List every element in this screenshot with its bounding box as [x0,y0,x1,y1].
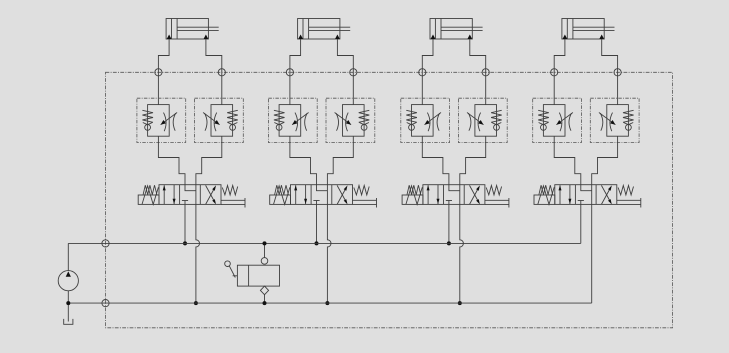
flow control valve 1b: body rectangle [211,105,233,137]
flow control valve 1a: check-valve spring [142,110,153,122]
unloading valve: body [237,265,279,286]
flow control valve 3a: check-valve ball [409,125,415,131]
flow control valve 4a: throttle arcs [559,113,571,132]
wire: valve 2 T port down to tank rail [327,204,331,303]
pump suction line [67,291,69,322]
flow control valve 3b: adjustment arrow [467,113,484,125]
flow control valve 3b: body rectangle [475,105,497,137]
directional valve 2: left return spring [275,185,289,195]
wire: flow control 1b to valve 1 port B [196,136,222,185]
wire: cylinder 1 cap-end port down to flow control 1b [206,39,222,105]
junction dot: valve 2 P on pressure rail [315,241,319,245]
unloading valve: bottom diamond port [260,286,268,295]
hydraulic pump P1 [58,243,78,290]
flow control valve 4b: dashed enclosure [590,98,639,142]
flow control valve 1a: check-valve seat [143,123,153,125]
wire: cylinder 4 rod-end port down to flow control 4a [554,39,565,105]
flow control valve 2b: check-valve ball [361,125,367,131]
directional valve 3: solenoid (left) [402,186,423,205]
directional valve 3: pilot drain lines (right) [485,198,509,208]
wire: flow control 3b to valve 3 port B [460,136,486,185]
directional valve 2: solenoid (left) [270,186,291,205]
wire: cylinder 4 cap-end port down to flow control 4b [602,39,618,105]
junction dot: valve 3 P on pressure rail [447,241,451,245]
directional valve 3: centre position passages [446,185,460,205]
flow control valve 3b: throttle arcs [468,113,480,132]
flow control valve 4a: dashed enclosure [533,98,582,142]
flow control valve 3a: check-valve seat [407,123,417,125]
wire: flow control 4b to valve 4 port B [592,136,618,185]
unloading valve: top roller circle [261,258,268,265]
tank symbol [64,319,73,324]
junction dot: valve 2 T on tank rail [325,301,329,305]
wire: valve 1 P port down to pressure rail [184,204,186,243]
directional valve 1: left return spring [143,185,157,195]
wire: valve 4 T port down to tank rail [591,204,593,303]
flow control valve 2a: adjustment arrow [292,113,309,125]
manifold port circle 4b on enclosure boundary [614,69,621,76]
flow control valve 4a: check-valve spring [538,110,549,122]
directional valve 1: pilot drain lines (right) [221,198,245,208]
directional valve 4: left return spring [539,185,553,195]
flow control valve 3b: check-valve seat [492,123,502,125]
flow control valve 4b: throttle arcs [600,113,612,132]
manifold port circle 3b on enclosure boundary [482,69,489,76]
flow control valve 3b: dashed enclosure [458,98,507,142]
wire: flow control 2b to valve 2 port B [327,136,353,185]
flow control valve 3a: check-valve spring [406,110,417,122]
flow control valve 4b: check-valve spring [623,110,634,122]
flow control valve 3b: check-valve ball [494,125,500,131]
flow control valve 2b: adjustment arrow [335,113,352,125]
flow control valve 2b: throttle arcs [336,113,348,132]
wire: cylinder 3 rod-end port down to flow control 3a [422,39,433,105]
wire: flow control 3a to valve 3 port A [422,136,449,185]
manifold port circle 4a on enclosure boundary [551,69,558,76]
manifold port circle 2b on enclosure boundary [350,69,357,76]
enclosure boundary (dash-dot manifold block) [106,72,673,327]
directional valve 3: right position crossed arrows [470,185,480,204]
flow control valve 2a: throttle arcs [295,113,307,132]
flow control valve 2b: check-valve spring [359,110,370,122]
directional valve 2: pilot drain lines (right) [353,198,377,208]
boundary port circle: tank rail through enclosure [102,300,109,307]
flow control valve 4b: check-valve seat [624,123,634,125]
directional valve 1: centre position passages [182,185,196,205]
flow control valve 4a: adjustment arrow [556,113,573,125]
flow control valve 1b: check-valve spring [227,110,238,122]
flow control valve 4b: check-valve ball [626,125,632,131]
manifold port circle 2a on enclosure boundary [286,69,293,76]
directional valve 1: right return spring [222,186,237,195]
wire: flow control 4a to valve 4 port A [554,136,581,185]
wire: flow control 2a to valve 2 port A [290,136,317,185]
flow control valve 2a: check-valve ball [276,125,282,131]
flow control valve 2a: body rectangle [279,105,301,137]
cylinder 3 (double-acting, rod right) [430,19,483,40]
wire: flow control 1a to valve 1 port A [158,136,185,185]
directional valve 1: right position crossed arrows [206,185,216,204]
directional valve 1: left position parallel arrows [163,185,176,205]
flow control valve 1b: dashed enclosure [195,98,244,142]
wire: cylinder 3 cap-end port down to flow control 3b [470,39,486,105]
directional valve 3: right return spring [486,186,501,195]
flow control valve 1a: adjustment arrow [161,113,178,125]
cylinder 2 (double-acting, rod right) [298,19,351,40]
flow control valve 4a: check-valve seat [539,123,549,125]
wire: valve 4 P port down to pressure rail [580,204,582,243]
directional valve 3: left return spring [407,185,421,195]
wire: valve 2 P port down to pressure rail [316,204,318,243]
cylinder 1 (double-acting, rod right) [166,19,219,40]
flow control valve 2a: dashed enclosure [268,98,317,142]
directional valve 2: body 3-position [291,185,353,205]
boundary port circle: pressure rail through enclosure [102,240,109,247]
junction dot: unloading valve on pressure rail [263,241,267,245]
flow control valve 1a: throttle arcs [164,113,176,132]
flow control valve 1b: throttle arcs [205,113,217,132]
directional valve 2: right position crossed arrows [337,185,347,204]
wire: valve 3 P port down to pressure rail [448,204,450,243]
flow control valve 2b: body rectangle [343,105,365,137]
flow control valve 3a: throttle arcs [427,113,439,132]
flow control valve 1b: check-valve seat [228,123,238,125]
flow control valve 2a: check-valve spring [274,110,285,122]
directional valve 3: body 3-position [423,185,485,205]
flow control valve 3a: dashed enclosure [401,98,450,142]
flow control valve 1a: check-valve ball [145,125,151,131]
cylinder 4 (double-acting, rod right) [562,19,615,40]
unloading valve: manual lever with knob [225,261,238,278]
directional valve 2: right return spring [354,186,369,195]
tank return rail [68,302,591,304]
pressure rail (pump supply line) [68,242,581,244]
flow control valve 1a: dashed enclosure [137,98,186,142]
flow control valve 3b: check-valve spring [491,110,502,122]
directional valve 2: centre position passages [313,185,327,205]
flow control valve 1b: adjustment arrow [203,113,220,125]
directional valve 1: body 3-position [159,185,221,205]
flow control valve 3a: adjustment arrow [425,113,442,125]
directional valve 4: body 3-position [555,185,617,205]
flow control valve 2a: check-valve seat [274,123,284,125]
directional valve 1: solenoid (left) [138,186,159,205]
directional valve 4: solenoid (left) [534,186,555,205]
junction dot: valve 1 P on pressure rail [183,241,187,245]
directional valve 4: left position parallel arrows [559,185,572,205]
wire: valve 3 T port down to tank rail [460,204,464,303]
manifold port circle 1b on enclosure boundary [218,69,225,76]
directional valve 4: right return spring [618,186,633,195]
unloading valve: tap from pressure rail [264,243,266,257]
flow control valve 1b: check-valve ball [230,125,236,131]
directional valve 4: pilot drain lines (right) [617,198,641,208]
manifold port circle 1a on enclosure boundary [155,69,162,76]
directional valve 4: centre position passages [578,185,592,205]
wire: unloading valve to tank rail [264,295,266,303]
flow control valve 4b: body rectangle [607,105,629,137]
directional valve 4: right position crossed arrows [601,185,611,204]
wire: valve 1 T port down to tank rail [196,204,200,303]
junction dot: pump on tank rail [66,301,70,305]
wire: cylinder 2 cap-end port down to flow control 2b [337,39,353,105]
manifold port circle 3a on enclosure boundary [419,69,426,76]
flow control valve 2b: dashed enclosure [326,98,375,142]
flow control valve 4a: body rectangle [543,105,565,137]
flow control valve 2b: check-valve seat [359,123,369,125]
directional valve 2: left position parallel arrows [294,185,307,205]
junction dot: unloading valve on tank rail [263,301,267,305]
wire: cylinder 1 rod-end port down to flow control 1a [158,39,169,105]
flow control valve 3a: body rectangle [412,105,434,137]
wire: cylinder 2 rod-end port down to flow control 2a [290,39,301,105]
flow control valve 4b: adjustment arrow [599,113,616,125]
junction dot: valve 3 T on tank rail [458,301,462,305]
directional valve 3: left position parallel arrows [427,185,440,205]
junction dot: valve 1 T on tank rail [194,301,198,305]
flow control valve 1a: body rectangle [148,105,170,137]
flow control valve 4a: check-valve ball [541,125,547,131]
